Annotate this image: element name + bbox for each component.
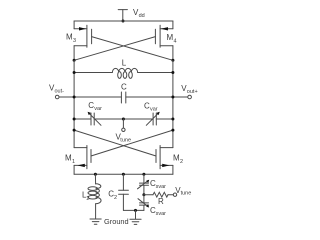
Vdd label bbox=[133, 8, 145, 19]
node varactor row left bbox=[73, 118, 76, 121]
ground under L2 bbox=[90, 219, 101, 224]
svg-text:L: L bbox=[122, 59, 127, 68]
Cvar left label bbox=[88, 101, 102, 112]
varactor Cvar right bbox=[146, 112, 159, 126]
Csvar bottom label bbox=[150, 206, 166, 217]
node M4 drain bbox=[171, 59, 174, 62]
node M1 drain bbox=[73, 129, 76, 132]
Vtune right label bbox=[175, 186, 191, 197]
resistor R bbox=[144, 192, 173, 197]
varactor Csvar bottom bbox=[138, 195, 149, 211]
svg-text:2: 2 bbox=[86, 196, 89, 202]
svg-text:svar: svar bbox=[156, 184, 167, 190]
terminal Vtune right bbox=[173, 193, 176, 196]
svg-text:Ground: Ground bbox=[104, 217, 129, 226]
L2 label bbox=[82, 191, 89, 203]
varactor Csvar top bbox=[138, 174, 150, 194]
capacitor C bbox=[59, 92, 188, 103]
svg-text:1: 1 bbox=[72, 159, 75, 165]
svg-text:3: 3 bbox=[73, 38, 76, 44]
svg-text:2: 2 bbox=[114, 195, 117, 201]
node M3 drain bbox=[73, 59, 76, 62]
transistor M2 (NMOS right) bbox=[156, 146, 173, 175]
wire left rail mid bbox=[73, 60, 75, 147]
M2 label bbox=[173, 154, 183, 166]
node L2 top bbox=[94, 173, 97, 176]
terminal Vout- bbox=[55, 95, 59, 99]
svg-text:2: 2 bbox=[180, 159, 183, 165]
svg-text:M: M bbox=[167, 33, 174, 42]
node R branch bbox=[142, 193, 145, 196]
transistor M1 (NMOS left) bbox=[74, 146, 91, 175]
wire top rail bbox=[74, 20, 173, 22]
varactor Cvar left bbox=[88, 112, 101, 126]
node C row left bbox=[73, 96, 76, 99]
svg-text:var: var bbox=[94, 106, 102, 112]
node Vdd junction bbox=[122, 20, 125, 23]
Csvar top label bbox=[150, 179, 166, 190]
svg-text:dd: dd bbox=[139, 13, 145, 19]
varactor row wire right bbox=[156, 118, 173, 120]
node Vtune center bbox=[122, 118, 125, 121]
C2 label bbox=[108, 190, 117, 202]
Vout+ label bbox=[181, 84, 197, 95]
transistor M4 (PMOS right) bbox=[155, 25, 173, 60]
M3 label bbox=[66, 33, 76, 45]
ground center-right bbox=[130, 219, 141, 224]
wire Vtune stub bbox=[122, 119, 124, 128]
Vout- label bbox=[49, 84, 64, 95]
svg-text:var: var bbox=[150, 106, 158, 112]
wire bottom rail bbox=[74, 173, 173, 175]
svg-text:svar: svar bbox=[156, 211, 167, 217]
svg-text:C: C bbox=[121, 83, 127, 92]
node inductor row left bbox=[73, 71, 76, 74]
node inductor row right bbox=[171, 71, 174, 74]
svg-text:R: R bbox=[158, 197, 164, 206]
svg-text:M: M bbox=[66, 33, 73, 42]
wire cross-couple M2 gate to M1 drain bbox=[74, 130, 156, 156]
node varactor row right bbox=[171, 118, 174, 121]
wire cross-couple M1 gate to M2 drain bbox=[91, 130, 173, 156]
wire cross-couple M3 gate to M4 drain bbox=[92, 37, 173, 61]
svg-text:4: 4 bbox=[174, 39, 177, 45]
Cvar right label bbox=[144, 101, 158, 112]
node M2 drain bbox=[171, 129, 174, 132]
Vdd supply symbol bbox=[118, 10, 127, 21]
svg-text:out+: out+ bbox=[187, 89, 198, 95]
wire right rail upper bbox=[172, 21, 174, 29]
wire cross-couple M4 gate to M3 drain bbox=[74, 37, 155, 61]
terminal Vtune center bbox=[122, 128, 125, 131]
wire ground stub bbox=[135, 210, 137, 218]
wire bottom ground run bbox=[123, 209, 143, 211]
M4 label bbox=[167, 33, 177, 45]
transistor M3 (PMOS left) bbox=[74, 25, 92, 60]
varactor row wire left bbox=[74, 118, 91, 120]
svg-text:out-: out- bbox=[55, 89, 65, 95]
Vtune center label bbox=[116, 133, 132, 144]
node C row right bbox=[171, 96, 174, 99]
capacitor C2 bbox=[119, 174, 129, 210]
svg-text:tune: tune bbox=[181, 190, 192, 196]
M1 label bbox=[65, 154, 75, 166]
svg-text:M: M bbox=[173, 154, 180, 163]
wire left rail upper bbox=[73, 21, 75, 29]
terminal Vout+ bbox=[188, 95, 192, 99]
inductor L2 bbox=[88, 174, 101, 219]
wire right rail mid bbox=[172, 60, 174, 147]
svg-text:M: M bbox=[65, 154, 72, 163]
node ground T bbox=[134, 209, 137, 212]
inductor L bbox=[74, 68, 173, 78]
node C2 top bbox=[122, 173, 125, 176]
node svar branch top bbox=[142, 173, 145, 176]
varactor row wire center bbox=[94, 118, 153, 120]
svg-text:tune: tune bbox=[120, 138, 131, 144]
